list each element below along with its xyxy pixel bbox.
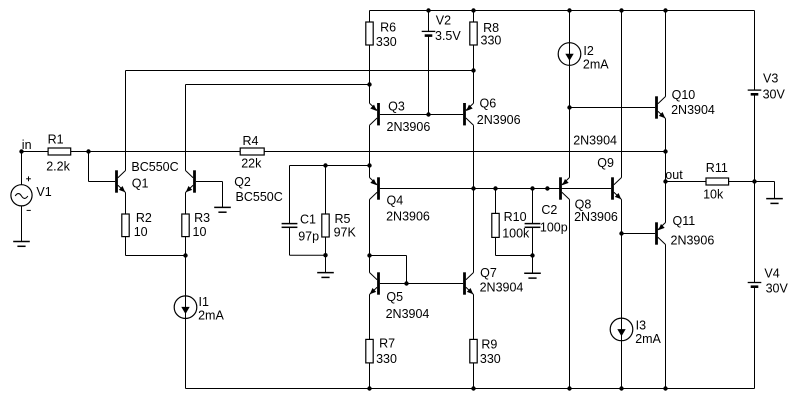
svg-text:330: 330 [376,35,397,49]
transistor Q10 [655,96,665,118]
wire C2 bottom to ground [532,227,534,273]
label R3 value [193,225,207,239]
wire Q3/Q6 base line [380,114,463,116]
svg-text:2N3906: 2N3906 [671,233,715,247]
voltage source V2 [422,31,436,35]
wire output column [665,119,667,223]
wire R10 top [495,189,497,214]
label V1 [36,185,51,199]
svg-text:2N3906: 2N3906 [386,210,430,224]
label I1 value [198,308,224,322]
wire Q2 base to ground stub [196,182,223,208]
svg-text:Q7: Q7 [480,266,497,280]
junction Q4 collector link [367,253,371,257]
ground at Q2 base [214,207,231,212]
ground below R5 [317,273,334,278]
resistor R3 [182,214,189,237]
wire V3-V4 column [754,11,756,389]
label out [665,168,683,182]
resistor R11 [706,178,729,185]
wire R5 top [325,166,327,215]
node A junction [86,149,90,153]
label R5 value [334,225,357,239]
label Q7 [480,266,497,280]
svg-text:10: 10 [193,225,207,239]
wire V2 column [428,11,430,115]
wire R2 to tail [125,237,127,256]
label R8 [483,21,499,35]
wire R1 to node A [71,151,89,153]
capacitor C2 [525,224,541,228]
wire Q4 collector to Q5 [369,200,371,273]
svg-text:2N3906: 2N3906 [574,210,618,224]
wire V3 node to right ground [755,182,775,199]
label Q10 [672,88,696,102]
label R7 value [376,352,397,366]
label Q5 value [386,307,430,321]
resistor R5 [322,214,329,237]
label V2 value [435,29,461,43]
wire R4 to output node [264,151,665,153]
svg-text:C2: C2 [541,203,557,217]
svg-text:I3: I3 [636,319,646,333]
label R1 [48,132,64,146]
svg-text:30V: 30V [763,88,786,102]
transistor Q11 [655,222,665,244]
transistor Q5 [370,272,380,294]
wire Q9 emitter to I3 [621,200,623,319]
svg-text:R9: R9 [481,338,497,352]
svg-text:2N3904: 2N3904 [480,281,524,295]
svg-text:Q3: Q3 [388,100,405,114]
label Q3 [388,100,405,114]
junction tail [183,253,187,257]
label R9 [481,338,497,352]
junction Q5 base link [404,281,408,285]
svg-text:2N3904: 2N3904 [386,307,430,321]
label I2 value [583,57,609,71]
ground at output network [766,199,783,204]
wire Q4 base node to Q7 collector [473,189,475,273]
wire R11 to V3 column [729,181,755,183]
wire Q3 collector to Q4 emitter [369,125,371,177]
svg-text:I2: I2 [583,44,593,58]
transistor Q2 [186,170,196,192]
current source I2 [558,43,581,66]
resistor R4 [240,148,264,155]
label Q4 value [386,210,430,224]
label Q11 value [671,233,715,247]
voltage source V1 [11,176,32,210]
wire R10 bottom [496,238,533,256]
label I1 [199,295,209,309]
wire Q5 emitter to R7 [369,295,371,340]
resistor R2 [122,214,129,237]
svg-text:Q4: Q4 [387,194,404,208]
label I3 value [635,332,661,346]
label R6 [380,20,396,34]
svg-text:2N3906: 2N3906 [387,120,431,134]
svg-text:2N3904: 2N3904 [573,133,617,147]
svg-text:R2: R2 [136,211,152,225]
junction R10 top [493,186,497,190]
wire rail2 Q2C to Q3 emitter node [186,84,370,86]
current source I3 [610,318,633,341]
svg-text:Q11: Q11 [673,214,696,228]
svg-text:Q10: Q10 [672,88,696,102]
svg-text:2mA: 2mA [198,308,224,322]
label R7 [379,336,395,350]
svg-text:Q2: Q2 [234,175,251,189]
svg-text:2N3906: 2N3906 [477,113,521,127]
label V4 value [766,281,789,295]
voltage source V4 [748,283,762,287]
label R3 [194,211,210,225]
label R9 value [480,352,501,366]
wire compensation line [290,166,370,224]
label Q6 [480,96,497,110]
wire I1 to bottom rail [185,319,187,389]
label Q5 [386,290,403,304]
junction Q10 collector top rail [663,8,667,12]
label V3 value [763,88,786,102]
node out feedback tap [663,149,667,153]
svg-text:Q1: Q1 [132,176,149,190]
label R2 value [134,225,148,239]
wire C1 bottom [290,227,326,255]
wire Q8 collector to bottom rail [569,200,571,389]
capacitor C1 [282,224,298,228]
wire R8 column [473,11,475,104]
resistor R8 [470,22,477,45]
label Q2 [234,175,251,189]
label V3 [763,71,778,85]
svg-text:Q9: Q9 [597,156,614,170]
resistor R6 [366,22,373,45]
junction C2 bottom [530,253,534,257]
svg-text:100k: 100k [502,227,530,241]
label in [22,138,32,152]
svg-text:BC550C: BC550C [131,160,178,174]
label Q6 value [477,113,521,127]
svg-text:C1: C1 [300,212,316,226]
wire R7 to bottom rail [369,363,371,389]
wire Q1 collector to rail1 [125,71,127,171]
label R8 value [481,34,502,48]
junction R8 top [471,8,475,12]
resistor R10 [492,213,499,237]
wire Q2 collector to rail2 [185,85,187,171]
svg-text:100p: 100p [540,220,568,234]
ground below V1 [13,242,30,247]
label Q3 value [387,120,431,134]
wire V1 to ground [21,206,23,242]
label V4 [764,267,779,281]
svg-text:R6: R6 [380,20,396,34]
ground below C2 [524,273,541,278]
wire node A to R4 [89,151,241,153]
wire Q11 collector to bottom rail [665,245,667,389]
wire Q6 collector to Q4 base node [473,125,475,188]
wire R9 to bottom rail [473,363,475,389]
label Q1 [132,176,149,190]
junction V2 base line [426,112,430,116]
wire in node to V1 [21,152,23,185]
svg-text:330: 330 [480,352,501,366]
transistor Q4 [370,177,380,199]
wire tail line [126,255,186,257]
transistor Q6 [463,103,473,125]
svg-text:330: 330 [481,34,502,48]
wire Q4/Q5 link [370,256,407,284]
wire node A down to Q1 base [89,152,116,182]
wire R3 to tail to I1 [185,237,187,296]
label Q2 value [236,190,283,204]
svg-text:V3: V3 [763,71,778,85]
svg-text:V4: V4 [764,267,779,281]
svg-text:97K: 97K [334,225,357,239]
svg-text:I1: I1 [199,295,209,309]
wire Q10 collector to top rail [665,11,667,97]
label R10 value [502,227,530,241]
wire Q5/Q7 base line [380,283,463,285]
transistor Q9 [611,177,621,199]
resistor R7 [366,339,373,363]
svg-text:10: 10 [134,225,148,239]
svg-text:2N3904: 2N3904 [671,103,715,117]
svg-text:2mA: 2mA [635,332,661,346]
wire I2 top [569,11,571,43]
svg-text:22k: 22k [241,156,262,170]
label Q1 value [131,160,178,174]
wire Q7 emitter to R9 [473,295,475,340]
label Q9 value [573,133,617,147]
wire R6 column [369,11,371,104]
wire C2 top [532,189,534,224]
current source I1 [174,296,197,319]
junction V2 top [426,8,430,12]
svg-text:2mA: 2mA [583,57,609,71]
wire Q9 collector to top rail [621,11,623,178]
svg-text:R5: R5 [335,212,351,226]
label Q4 [387,194,404,208]
junction R7 bottom rail [367,386,371,390]
wire Q11 base line [622,233,656,235]
label Q11 [673,214,696,228]
label R11 [706,161,728,175]
junction compensation to Q4 emitter [367,163,371,167]
svg-text:30V: 30V [766,281,789,295]
voltage source V3 [748,90,762,94]
wire top supply rail [370,10,755,12]
label C1 value [298,229,319,243]
node out [663,179,667,183]
node in [19,149,23,153]
label Q10 value [671,103,715,117]
label I3 [636,319,646,333]
junction R5 top [323,163,327,167]
junction rail2 to Q3 emitter [367,82,371,86]
svg-text:10k: 10k [703,188,724,202]
label R6 value [376,35,397,49]
label V2 [436,14,451,28]
wire Q10 base line [570,107,656,109]
svg-text:R11: R11 [706,161,728,175]
wire Q2 emitter to R3 [185,193,187,215]
label Q8 [575,198,592,212]
svg-text:330: 330 [376,352,397,366]
svg-text:97p: 97p [298,229,319,243]
label I2 [583,44,593,58]
label R4 value [241,156,262,170]
junction Q9 collector top rail [619,8,623,12]
svg-text:V2: V2 [436,14,451,28]
junction I2 top [567,8,571,12]
svg-text:out: out [665,168,683,182]
wire I3 to bottom rail [621,341,623,389]
label Q7 value [480,281,524,295]
wire out to R11 [666,181,707,183]
label C1 [300,212,316,226]
label C2 value [540,220,568,234]
svg-text:R1: R1 [48,132,64,146]
wire I2 to Q8 emitter [569,65,571,177]
junction Q8 collector bottom rail [567,386,571,390]
resistor R9 [470,339,477,363]
wire R5 bottom to ground [325,237,327,273]
resistor R1 [48,148,71,155]
transistor Q7 [463,272,473,294]
transistor Q1 [115,170,125,192]
junction base line node [545,186,549,190]
svg-text:V1: V1 [36,185,51,199]
label R5 [335,212,351,226]
wire bottom supply rail [186,388,755,390]
junction Q4 base to Q6 collector [471,186,475,190]
transistor Q8 [559,177,569,199]
svg-text:Q6: Q6 [480,96,497,110]
svg-text:3.5V: 3.5V [435,29,461,43]
wire Q1 emitter to R2 [125,193,127,215]
junction rail1 to Q6 emitter [471,68,475,72]
label R10 [504,210,527,224]
junction I3 bottom rail [619,386,623,390]
svg-text:Q5: Q5 [386,290,403,304]
svg-text:2.2k: 2.2k [46,159,70,173]
junction R11 to V3 column [752,179,756,183]
label Q8 value [574,210,618,224]
junction I2 to Q10 base [567,105,571,109]
svg-text:in: in [22,138,32,152]
junction C2 top [530,186,534,190]
label R1 value [46,159,70,173]
label R2 [136,211,152,225]
label R11 value [703,188,724,202]
junction C1/R5 bottom [323,253,327,257]
svg-text:R10: R10 [504,210,527,224]
label Q9 [597,156,614,170]
label C2 [541,203,557,217]
svg-text:R7: R7 [379,336,395,350]
transistor Q3 [370,103,380,125]
junction Q9 emitter to Q11 base [619,231,623,235]
svg-text:BC550C: BC550C [236,190,283,204]
wire Q4 base line [380,188,611,190]
wire rail1 Q1C to Q6 emitter node [126,70,474,72]
wire in node to R1 [22,151,49,153]
junction Q11 collector bottom rail [663,386,667,390]
svg-text:R4: R4 [243,134,259,148]
label R4 [243,134,259,148]
junction R9 bottom rail [471,386,475,390]
svg-text:R3: R3 [194,211,210,225]
